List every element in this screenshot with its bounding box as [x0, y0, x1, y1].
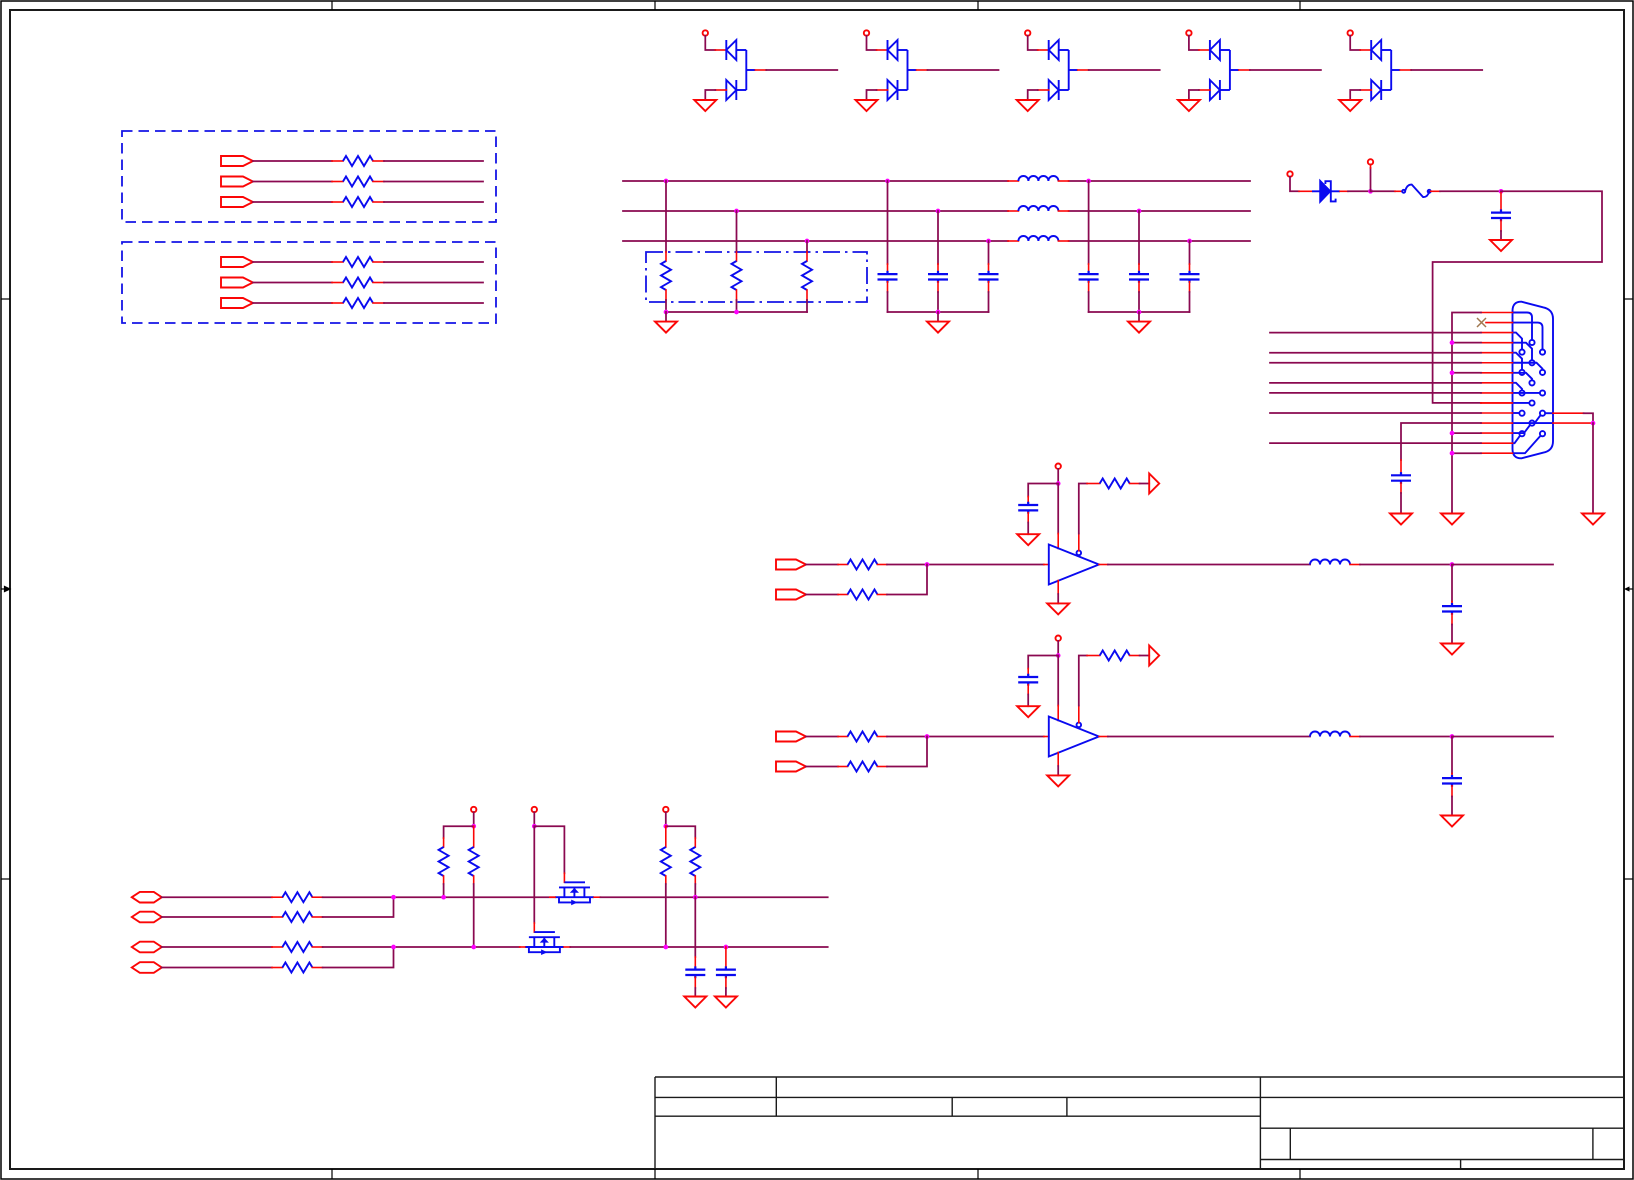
wire (line 1)	[323, 896, 555, 898]
wire (J1 pin 11 signal)	[1270, 412, 1481, 414]
power port	[532, 807, 537, 812]
node	[391, 895, 396, 900]
wire	[665, 812, 667, 826]
diode upper (to VCC)	[1210, 40, 1239, 90]
wire	[665, 290, 667, 300]
ground	[1582, 514, 1604, 525]
input port (row 3)	[221, 197, 253, 207]
wire (J1 pin 8 signal)	[1270, 382, 1481, 384]
resistor (termination 2)	[732, 261, 742, 290]
wire	[373, 282, 384, 284]
node	[1187, 239, 1192, 244]
capacitor (supply bypass)	[1018, 674, 1038, 686]
wire	[1451, 737, 1453, 774]
wire (termination common)	[666, 311, 807, 313]
resistor (termination 3)	[802, 261, 812, 290]
wire	[253, 160, 332, 162]
node (output junction)	[1450, 562, 1455, 567]
wire	[988, 241, 990, 264]
wire (signal out)	[1078, 69, 1089, 71]
wire	[1451, 786, 1453, 797]
node (input junction)	[925, 734, 930, 739]
wire	[1088, 282, 1090, 292]
wire	[1452, 372, 1481, 374]
input port (row 6)	[221, 298, 253, 308]
resistor (series input 1)	[848, 560, 878, 570]
resistor (termination 1)	[661, 261, 671, 290]
capacitor (filter C1)	[878, 271, 898, 283]
ground	[1441, 514, 1463, 525]
node (supply junction)	[1056, 653, 1061, 658]
node	[693, 895, 698, 900]
wire	[1500, 220, 1502, 231]
wire	[1189, 241, 1191, 264]
power port (ESD) at x=705.3	[703, 30, 708, 35]
wire	[665, 181, 667, 252]
bidirectional port (SCL B)	[132, 912, 162, 923]
wire (gate Q1)	[534, 826, 564, 873]
ground	[1047, 603, 1069, 614]
wire	[373, 261, 384, 263]
wire (J1 pin 6 signal)	[1270, 362, 1481, 364]
power port (ESD) at x=1350.2	[1348, 30, 1353, 35]
wire (amp output)	[1099, 736, 1108, 738]
wire	[1088, 181, 1090, 264]
wire	[806, 766, 838, 768]
inductor (bus filter L3)	[1018, 236, 1058, 241]
wire	[1138, 211, 1140, 264]
wire (cap group 1 common)	[888, 311, 989, 313]
wire	[694, 838, 696, 847]
fuse (polyswitch)	[1402, 185, 1431, 198]
resistor (feedback)	[1100, 479, 1130, 489]
wire	[1058, 210, 1068, 212]
wire (J1 pin 12)	[1401, 423, 1481, 460]
wire	[1452, 452, 1481, 454]
wire	[550, 896, 555, 898]
inductor (output filter)	[1310, 560, 1350, 565]
power port	[1287, 171, 1292, 176]
node	[1450, 370, 1455, 375]
wire	[1138, 282, 1140, 292]
wire	[1138, 312, 1140, 322]
resistor (series row 3)	[343, 197, 373, 207]
wire	[312, 916, 322, 918]
wire	[665, 876, 667, 884]
output port (flag)	[1149, 474, 1159, 494]
resistor (feedback)	[1100, 651, 1130, 661]
wire	[806, 594, 838, 596]
connector J1 pins (circles and internal routing)	[1513, 313, 1554, 454]
wire	[806, 564, 838, 566]
wire	[867, 36, 877, 50]
wire (J1 pin 14 signal)	[1270, 442, 1481, 444]
capacitor (output filter)	[1442, 775, 1462, 787]
resistor (pullup A2)	[469, 847, 479, 876]
wire	[694, 977, 696, 988]
no-connect X (pin 2)	[1477, 318, 1486, 327]
wire	[1451, 614, 1453, 625]
node	[1368, 189, 1373, 194]
wire (line 3 cont)	[570, 946, 827, 948]
node (supply junction)	[1056, 481, 1061, 486]
input port (row 4)	[221, 257, 253, 267]
wire	[1028, 484, 1058, 497]
wire (connector ground rail)	[1452, 313, 1481, 514]
capacitor (line 1 filter)	[685, 966, 705, 978]
wire (signal out)	[917, 69, 928, 71]
wire	[937, 211, 939, 264]
wire	[1371, 190, 1396, 192]
wire (J1 pin 9 signal)	[1270, 392, 1481, 394]
resistor (series input 2)	[848, 590, 878, 600]
wire	[1452, 342, 1481, 344]
wire (amp V-)	[1057, 581, 1059, 595]
wire	[665, 312, 667, 322]
inductor (bus filter L2)	[1018, 206, 1058, 211]
node	[1591, 421, 1596, 426]
node	[1450, 340, 1455, 345]
capacitor (filter C5)	[1129, 271, 1149, 283]
wire	[806, 736, 838, 738]
power port (amp supply)	[1056, 636, 1061, 641]
wire	[1008, 210, 1018, 212]
wire	[533, 812, 535, 826]
bidirectional port (SCL A)	[132, 892, 162, 903]
ground	[1339, 100, 1361, 111]
capacitor (filter C4)	[1079, 271, 1099, 283]
resistor (series input 1)	[848, 732, 878, 742]
wire	[666, 826, 696, 838]
ground	[715, 997, 737, 1008]
capacitor (filter C6)	[1180, 271, 1200, 283]
node (output junction)	[1450, 734, 1455, 739]
wire	[253, 261, 332, 263]
wire	[1058, 180, 1068, 182]
wire	[253, 302, 332, 304]
wire	[1400, 483, 1402, 493]
wire	[373, 160, 384, 162]
wire	[937, 282, 939, 292]
capacitor (J1 filter)	[1391, 472, 1411, 484]
wire	[162, 916, 272, 918]
wire (signal out)	[1400, 69, 1411, 71]
node	[1450, 451, 1455, 456]
wire (bus line 3)	[623, 240, 1008, 242]
resistor (series row 6)	[343, 298, 373, 308]
wire	[1028, 656, 1058, 669]
node	[1499, 189, 1504, 194]
wire	[1057, 469, 1059, 484]
input port (inv)	[776, 762, 806, 772]
wire (bus line 2)	[623, 210, 1008, 212]
wire	[473, 876, 475, 884]
zener diode	[1320, 181, 1340, 202]
ground	[1017, 706, 1039, 717]
bidirectional port (SDA A)	[132, 942, 162, 953]
resistor (pullup B2)	[690, 847, 700, 876]
wire	[162, 967, 272, 969]
wire	[715, 89, 726, 91]
wire (signal out)	[1239, 69, 1250, 71]
wire	[878, 594, 888, 596]
wire	[1199, 89, 1210, 91]
connector J1 pin stubs	[1481, 313, 1513, 454]
ground	[1490, 240, 1512, 251]
wire	[694, 897, 696, 957]
node	[471, 824, 476, 829]
wire (power feed)	[1433, 191, 1602, 403]
wire	[725, 977, 727, 988]
ground	[1178, 100, 1200, 111]
node	[441, 895, 446, 900]
resistor (pullup A1)	[439, 847, 449, 876]
wire	[1451, 565, 1453, 602]
node	[936, 209, 941, 214]
wire	[736, 290, 738, 300]
wire	[1350, 564, 1360, 566]
diode lower (to GND)	[1371, 80, 1391, 100]
resistor (series)	[282, 912, 312, 922]
wire (signal out)	[755, 69, 766, 71]
wire	[937, 312, 939, 322]
wire (bus line 1)	[623, 180, 1008, 182]
wire	[312, 967, 322, 969]
wire (line 1 cont)	[600, 896, 827, 898]
output port (flag)	[1149, 646, 1159, 666]
node	[734, 209, 739, 214]
wire	[736, 211, 738, 252]
input port (inv)	[776, 590, 806, 600]
dashed box (group 1)	[122, 131, 496, 222]
wire	[1130, 483, 1140, 485]
resistor (series)	[282, 963, 312, 973]
wire	[253, 282, 332, 284]
ground	[655, 322, 677, 333]
diode lower (to GND)	[888, 80, 908, 100]
power port	[471, 807, 476, 812]
diode lower (to GND)	[1210, 80, 1230, 100]
diode upper (to VCC)	[1371, 40, 1400, 90]
connector J1 (DB15) shell	[1513, 302, 1554, 459]
node	[391, 945, 396, 950]
ground	[1128, 322, 1150, 333]
wire	[373, 302, 384, 304]
resistor (pullup B1)	[661, 847, 671, 876]
resistor (series row 5)	[343, 278, 373, 288]
wire	[444, 826, 474, 838]
node	[885, 179, 890, 184]
node	[734, 310, 739, 315]
wire (V+ to amp)	[1057, 656, 1059, 706]
wire	[312, 896, 322, 898]
wire	[1340, 190, 1348, 192]
wire (amp V-)	[1057, 753, 1059, 767]
ground	[694, 100, 716, 111]
wire (cap group 2 common)	[1089, 311, 1190, 313]
wire	[162, 946, 272, 948]
node	[664, 310, 669, 315]
wire (feedback pin)	[1078, 706, 1080, 723]
op-amp	[1049, 545, 1099, 585]
node	[1137, 310, 1142, 315]
node	[1137, 209, 1142, 214]
resistor (series row 2)	[343, 177, 373, 187]
inductor (output filter)	[1310, 732, 1350, 737]
wire	[1008, 240, 1018, 242]
wire (feedback pin)	[1078, 534, 1080, 551]
wire	[1553, 422, 1591, 424]
wire	[253, 201, 332, 203]
node	[805, 239, 810, 244]
ground	[1017, 534, 1039, 545]
wire	[473, 826, 475, 847]
node	[663, 824, 668, 829]
capacitor (input filter)	[1491, 209, 1511, 221]
wire	[1350, 36, 1360, 50]
wire (V+ to amp)	[1057, 484, 1059, 534]
dash-dot box (resistor group)	[646, 252, 867, 302]
diode upper (to VCC)	[1049, 40, 1078, 90]
resistor (series)	[282, 892, 312, 902]
power port	[663, 807, 668, 812]
node	[663, 945, 668, 950]
diode upper (to VCC)	[888, 40, 917, 90]
node	[664, 179, 669, 184]
wire	[878, 736, 888, 738]
capacitor (line 3 filter)	[716, 966, 736, 978]
wire	[806, 290, 808, 300]
wire	[887, 282, 889, 292]
wire	[1027, 685, 1029, 695]
node	[532, 824, 537, 829]
wire	[1350, 736, 1360, 738]
power port (ESD) at x=1188.9	[1186, 30, 1191, 35]
transistor Q1 (level shifter)	[555, 882, 594, 905]
wire (line 3)	[323, 946, 520, 948]
capacitor (output filter)	[1442, 603, 1462, 615]
power port	[1368, 159, 1373, 164]
wire	[887, 181, 889, 264]
wire	[1370, 168, 1372, 191]
resistor (series)	[282, 942, 312, 952]
ground	[1017, 100, 1039, 111]
wire	[806, 241, 808, 252]
node	[1086, 179, 1091, 184]
node	[1450, 431, 1455, 436]
wire	[988, 282, 990, 292]
ground	[684, 997, 706, 1008]
wire	[1452, 432, 1481, 434]
wire	[694, 876, 696, 884]
wire	[1058, 240, 1068, 242]
wire	[1452, 564, 1553, 566]
resistor (series input 2)	[848, 762, 878, 772]
wire	[1008, 180, 1018, 182]
wire	[1360, 89, 1371, 91]
resistor (series row 1)	[343, 156, 373, 166]
input port (row 2)	[221, 177, 253, 187]
wire	[373, 181, 384, 183]
wire	[878, 766, 888, 768]
node	[724, 945, 729, 950]
wire (amp output)	[1099, 564, 1108, 566]
wire (line 2 joins line 1)	[323, 897, 394, 917]
wire (gate Q2)	[533, 826, 535, 923]
dashed box (group 2)	[122, 242, 496, 323]
input port (row 5)	[221, 278, 253, 288]
ground	[1441, 644, 1463, 655]
wire	[1027, 513, 1029, 523]
node	[936, 310, 941, 315]
diode lower (to GND)	[1049, 80, 1069, 100]
capacitor (filter C2)	[928, 271, 948, 283]
power port (amp supply)	[1056, 464, 1061, 469]
wire	[312, 946, 322, 948]
wire	[705, 36, 715, 50]
wire	[373, 201, 384, 203]
wire	[1189, 36, 1199, 50]
wire (J1 shield)	[1553, 412, 1584, 414]
wire (line 4 joins line 3)	[323, 947, 394, 968]
input port (non-inv)	[776, 732, 806, 742]
resistor (series row 4)	[343, 257, 373, 267]
wire	[253, 181, 332, 183]
inductor (bus filter L1)	[1018, 176, 1058, 181]
node	[986, 239, 991, 244]
wire	[725, 947, 727, 968]
wire	[162, 896, 272, 898]
wire	[443, 876, 445, 884]
node	[471, 945, 476, 950]
diode lower (to GND)	[726, 80, 746, 100]
ground	[1390, 514, 1412, 525]
wire (J1 pin 5 signal)	[1270, 352, 1481, 354]
ground	[927, 322, 949, 333]
wire	[473, 812, 475, 826]
wire	[877, 89, 888, 91]
ground	[1441, 816, 1463, 827]
wire	[878, 564, 888, 566]
capacitor (filter C3)	[979, 271, 999, 283]
op-amp	[1049, 717, 1099, 757]
wire	[1189, 282, 1191, 292]
power port (ESD) at x=1027.7	[1025, 30, 1030, 35]
transistor Q2 (level shifter)	[525, 932, 564, 955]
input port (row 1)	[221, 156, 253, 166]
wire	[1057, 641, 1059, 656]
diode upper (to VCC)	[726, 40, 755, 90]
wire	[1038, 89, 1049, 91]
wire	[1028, 36, 1038, 50]
bidirectional port (SDA B)	[132, 962, 162, 973]
node (input junction)	[925, 562, 930, 567]
input port (non-inv)	[776, 560, 806, 570]
power port (ESD) at x=866.5	[864, 30, 869, 35]
ground	[856, 100, 878, 111]
wire (J1 pin 3 signal)	[1270, 332, 1481, 334]
wire	[1592, 423, 1594, 513]
wire	[1452, 736, 1553, 738]
capacitor (supply bypass)	[1018, 502, 1038, 514]
wire	[1500, 191, 1502, 210]
wire	[1290, 177, 1299, 192]
wire	[1130, 655, 1140, 657]
ground	[1047, 775, 1069, 786]
wire	[1431, 190, 1440, 192]
